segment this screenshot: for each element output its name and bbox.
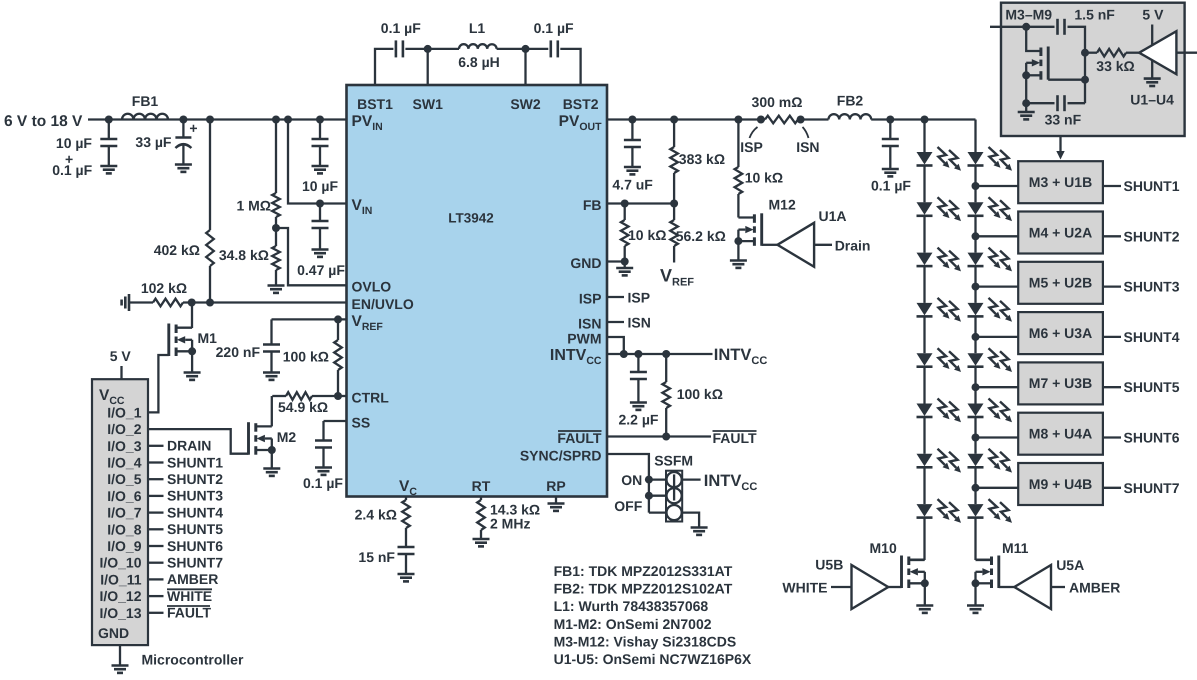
wire string2 seg3 [974,266,976,303]
svg-text:INTVCC: INTVCC [714,346,768,367]
pin label VC [399,478,417,498]
capacitor 0.1uF output [882,120,899,170]
wire VIN feed [288,120,347,204]
junction 1M tap [272,116,280,124]
wire string1 bottom [923,518,925,560]
svg-text:M10: M10 [870,540,897,556]
junction SW2 [522,45,530,53]
value label 2.4 kOhm [355,507,397,523]
label Microcontroller [142,651,244,667]
ground inverter [1144,79,1161,86]
capacitor 10uF at VIN [312,120,329,167]
pin label I/O_6 [107,488,141,504]
svg-text:AMBER: AMBER [167,571,218,587]
junction 1M/34.8k [272,224,280,232]
buffer U5A [1014,565,1051,609]
ferrite bead FB2 [829,114,872,119]
svg-text:M6 + U3A: M6 + U3A [1029,325,1092,341]
pin label SYNC/SPRD [520,448,602,464]
value label 100 kOhm [283,349,329,365]
svg-text:I/O_8: I/O_8 [107,521,141,537]
LED string1 #1 [917,147,962,171]
value label 4.7 uF [612,177,653,193]
svg-text:SHUNT5: SHUNT5 [1124,379,1180,395]
value label 2 MHz [490,516,530,532]
label + [65,151,73,167]
junction 402k/EN [206,299,214,307]
pin label I/O_11 [100,571,141,587]
junction M1 drain tap [188,299,196,307]
pin label GND (mc) [98,625,129,641]
junction jumper pin2 [645,492,653,500]
ref label U1A [819,208,847,224]
ref label M2 [277,429,297,445]
wire ISN pin stub [607,321,624,323]
wire inverter ground [1151,61,1153,79]
capacitor 220nF [263,319,280,372]
svg-text:M8 + U4A: M8 + U4A [1029,426,1092,442]
svg-text:SS: SS [352,415,371,431]
wire cap to SW1 [405,48,427,50]
junction 2.2uF [634,350,642,358]
junction tap 4 [972,333,980,341]
value label 15 nF [358,549,395,565]
wire U1A input [814,244,832,246]
net label SHUNT4 [1124,329,1180,345]
wire M12 source to ground [737,241,739,260]
svg-text:DRAIN: DRAIN [167,438,211,454]
wire FAULT [607,435,711,437]
svg-text:0.47 µF: 0.47 µF [297,262,345,278]
wire SW1 to L1 [428,48,459,50]
value label 100 kOhm [677,386,723,402]
net label DRAIN [167,438,211,454]
svg-text:I/O_5: I/O_5 [107,471,141,487]
wire ISP pin stub [607,296,624,298]
svg-text:FB2: FB2 [837,93,864,109]
pin label ISN [578,316,601,332]
pin label INTVCC [550,347,602,367]
resistor 402k [206,120,214,303]
junction ISP sense [757,116,765,124]
LED string2 #8 [968,499,1013,523]
ref label U5B [815,557,843,573]
ground (rotated) EN divider [122,294,129,311]
ref label M11 [1002,540,1029,556]
junction left LED string [921,116,929,124]
pin label I/O_1 [107,404,141,420]
net label SHUNT2 [1124,228,1180,244]
svg-text:FAULT: FAULT [557,430,602,446]
junction M1 source [188,347,196,355]
value label 54.9 kOhm [278,399,328,415]
svg-text:FB1: TDK MPZ2012S331AT: FB1: TDK MPZ2012S331AT [554,563,733,579]
svg-text:SHUNT5: SHUNT5 [167,521,223,537]
junction VIN feed [284,116,292,124]
pin label BST1 [357,96,393,112]
wire SW2 to cap [526,48,549,50]
svg-text:6 V to 18 V: 6 V to 18 V [4,113,83,130]
wire I/O_13 stub [148,612,164,614]
wire CTRL [272,395,346,397]
wire string2 bottom [974,518,976,560]
wire string1 seg5 [923,367,925,404]
value label 10 kOhm [745,170,783,186]
wire string2 seg1 [974,166,976,203]
resistor 14.3k at RT [477,497,485,540]
wire string1 seg6 [923,417,925,454]
svg-text:RP: RP [546,478,565,494]
wire M1 drain [191,303,193,329]
svg-text:5 V: 5 V [1142,7,1164,23]
svg-text:0.1 µF: 0.1 µF [52,162,92,178]
svg-text:SHUNT6: SHUNT6 [1124,430,1180,446]
pin label I/O_8 [107,521,141,537]
wire string2 seg6 [974,417,976,454]
junction 402k tap [206,116,214,124]
node label 6 V to 18 V [4,113,83,130]
LED string1 #3 [917,248,962,272]
svg-text:SHUNT3: SHUNT3 [1124,279,1180,295]
net label AMBER [1069,580,1120,596]
svg-text:SHUNT1: SHUNT1 [1124,178,1180,194]
wire M1 gate to I/O_1 [148,355,169,412]
junction 33uF [179,116,187,124]
junction 383k/56.2k [670,200,678,208]
wire M2 gate to I/O_2 [148,429,249,454]
value label 300 mOhm [752,94,803,110]
pin label BST2 [563,96,599,112]
net label ISN pin [628,315,651,331]
svg-text:34.8 kΩ: 34.8 kΩ [219,247,269,263]
svg-text:ISN: ISN [628,315,651,331]
svg-text:I/O_4: I/O_4 [107,455,141,471]
ground VC cap [398,574,415,581]
LED string2 #4 [968,298,1013,322]
value label 102 kOhm [141,280,187,296]
wire cap to BST2 riser [560,49,580,85]
wire U5B input [831,586,852,588]
svg-text:WHITE: WHITE [782,580,827,596]
svg-text:0.1 µF: 0.1 µF [381,20,421,36]
buffer U1A [777,223,814,267]
label ON [621,472,642,488]
pin label FB [583,197,602,213]
wire to pin2 [649,495,666,497]
wire string2 seg2 [974,216,976,253]
ref label FB2 [837,93,864,109]
label OFF [614,498,642,514]
wire tap 2 [976,235,1019,237]
svg-text:100 kΩ: 100 kΩ [677,386,723,402]
net label AMBER [167,571,218,587]
wire I/O_11 stub [148,578,164,580]
LED string2 #1 [968,147,1013,171]
wire I/O_12 stub [148,595,164,597]
transistor M2 [249,422,272,455]
wire SW1 riser [427,49,429,85]
capacitor 2.2uF [630,354,647,403]
resistor 383k [670,120,678,204]
IC name label LT3942 [448,211,494,226]
wire SYNC/SPRD [607,454,649,513]
wire shunt4 out [1103,336,1121,338]
net label SHUNT7 [167,555,223,571]
svg-text:I/O_1: I/O_1 [107,404,141,420]
capacitor 15nF [398,547,415,574]
net label Drain [835,238,871,254]
svg-text:ISN: ISN [796,139,819,155]
transistor M1 [169,324,192,357]
transistor M10 [902,556,925,589]
net label SHUNT3 [167,488,223,504]
svg-text:2 MHz: 2 MHz [490,516,530,532]
svg-text:SHUNT3: SHUNT3 [167,488,223,504]
net label FAULT [167,605,212,621]
ground 220nF [263,373,280,380]
LED string1 #6 [917,399,962,423]
junction gate node [1081,76,1089,84]
pin label FAULT (overlined) [557,430,602,446]
jumper header SSFM [666,471,682,522]
wire PWM to INTVCC [607,337,624,354]
LED string2 #2 [968,197,1013,221]
wire BST1 riser [375,49,393,85]
junction CTRL/100k [334,392,342,400]
value label 0.1 uF [534,20,574,36]
value label 34.8 kOhm [219,247,269,263]
net label SHUNT3 [1124,279,1180,295]
net label SHUNT4 [167,504,223,520]
junction ISN sense [797,116,805,124]
wire OVLO feed [276,228,347,285]
resistor 102k [153,299,183,307]
wire U5A input [1051,586,1065,588]
label + of 33uF [189,120,197,136]
value label 383 kOhm [679,151,725,167]
wire to M2 drain [271,396,273,426]
ref label L1 [469,20,486,36]
junction ISP branch [734,116,742,124]
junction FB/10k [621,200,629,208]
LED string1 #7 [917,449,962,473]
wire I/O_7 stub [148,511,164,513]
svg-text:I/O_9: I/O_9 [107,538,141,554]
ground 33uF [175,165,192,172]
net label SHUNT1 [167,454,223,470]
svg-text:LT3942: LT3942 [448,211,494,226]
junction tap 3 [972,283,980,291]
svg-text:M12: M12 [769,197,796,213]
pin label I/O_4 [107,455,141,471]
ground 0.47uF [312,250,329,257]
svg-text:L1: L1 [469,20,486,36]
wire SW2 riser [524,49,526,85]
net label INTVCC (jumper) [704,472,758,493]
ground 4.7uF [624,167,641,174]
wire shunt3 out [1103,285,1121,287]
wire EN/UVLO [129,301,347,303]
wire string1 seg7 [923,467,925,504]
ground microcontroller [112,666,129,673]
svg-text:6.8 µH: 6.8 µH [458,54,500,70]
ground 2.2uF [630,403,647,410]
svg-text:M9 + U4B: M9 + U4B [1029,476,1092,492]
shunt block M5 + U2B [1018,262,1103,304]
wire to pin3 [649,511,666,513]
wire to 33nF [1026,102,1054,104]
svg-text:FB2: TDK MPZ2012S102AT: FB2: TDK MPZ2012S102AT [554,581,733,597]
svg-text:I/O_10: I/O_10 [99,555,141,571]
svg-text:10 kΩ: 10 kΩ [745,170,783,186]
IC U? LT3942 body [347,85,608,497]
label SSFM [654,453,693,469]
pin label I/O_10 [99,555,141,571]
junction M2 source [268,446,276,454]
capacitor 0.47uF [312,204,329,250]
value label 0.47 uF [297,262,345,278]
junction tap 6 [972,434,980,442]
value label 220 nF [216,344,261,360]
capacitor 4.7uF [624,120,641,168]
svg-text:U1A: U1A [819,208,847,224]
wire M10 source ground [924,583,926,605]
value label 1.5 nF [1074,7,1115,23]
wire tap 5 [976,386,1019,388]
svg-text:ISN: ISN [578,316,601,332]
pin label RT [472,478,491,494]
ground M1 [184,373,201,380]
pin label ISP [579,291,602,307]
capacitor input 10uF+0.1uF [100,120,117,167]
LED string2 #6 [968,399,1013,423]
pin label VIN [352,197,373,217]
svg-text:L1: Wurth 78438357068: L1: Wurth 78438357068 [554,598,709,614]
wire I/O_4 stub [148,461,164,463]
label 5 V (mc) [110,348,132,364]
inductor L1 [459,44,497,49]
junction tap 2 [972,232,980,240]
svg-text:383 kΩ: 383 kΩ [679,151,725,167]
svg-text:ISP: ISP [740,139,763,155]
pointer ISN [803,127,809,138]
svg-text:BST1: BST1 [357,96,393,112]
pin label CTRL [352,390,390,406]
junction tap 7 [972,484,980,492]
LED string2 #5 [968,348,1013,372]
wire L1 to SW2 [497,48,526,50]
value label 0.1 uF [381,20,421,36]
capacitor 1.5nF [1058,19,1065,35]
wire shunt5 out [1103,386,1121,388]
net label VREF [660,266,694,289]
wire pin1 to INTVCC [682,478,700,480]
svg-text:0.1 µF: 0.1 µF [534,20,574,36]
svg-text:300 mΩ: 300 mΩ [752,94,803,110]
svg-text:ON: ON [621,472,642,488]
ground GND pin [616,262,633,276]
wire M11 gate to U5A [999,586,1015,588]
svg-text:ISP: ISP [579,291,602,307]
junction PWM/INTVCC [620,350,628,358]
svg-text:I/O_2: I/O_2 [107,421,141,437]
wire I/O_8 stub [148,528,164,530]
value label 33 kOhm [1096,58,1134,74]
value label 2.2 uF [619,412,659,428]
value label 10 uF [56,135,93,151]
pin label I/O_5 [107,471,141,487]
wire shunt7 out [1103,487,1121,489]
net label SHUNT1 [1124,178,1180,194]
ground input cap [100,166,117,173]
pin label I/O_2 [107,421,141,437]
wire shunt2 out [1103,235,1121,237]
inverter U1-U4 [1139,31,1176,74]
svg-text:GND: GND [98,625,129,641]
wire inset input [990,26,1055,28]
value label 0.1 uF [871,178,911,194]
svg-text:SHUNT7: SHUNT7 [1124,480,1180,496]
wire M12 gate to U1A [762,244,778,246]
buffer U5B [852,565,889,609]
svg-text:56.2 kΩ: 56.2 kΩ [676,228,726,244]
wire I/O_3 stub [148,445,164,447]
svg-text:402 kΩ: 402 kΩ [154,242,200,258]
svg-text:5 V: 5 V [110,348,132,364]
junction VREF/100k [334,315,342,323]
ground jumper [691,528,708,535]
label 5 V (inset) [1142,7,1164,23]
pin label SS [352,415,371,431]
net label SHUNT7 [1124,480,1180,496]
svg-text:1.5 nF: 1.5 nF [1074,7,1115,23]
svg-text:1 MΩ: 1 MΩ [236,198,271,214]
resistor 33k [1097,49,1126,57]
wire M11 source ground [974,583,976,605]
wire string2 seg5 [974,367,976,404]
resistor 300 mOhm sense [765,116,798,124]
capacitor C 33uF electrolytic [175,120,191,165]
wire I/O_6 stub [148,495,164,497]
pin label PVOUT [559,113,602,133]
svg-text:100 kΩ: 100 kΩ [283,349,329,365]
svg-text:SHUNT7: SHUNT7 [167,555,223,571]
svg-text:RT: RT [472,478,491,494]
wire SS [324,420,347,422]
pin label PVIN [352,113,383,133]
svg-text:SHUNT1: SHUNT1 [167,454,223,470]
svg-text:M11: M11 [1002,540,1029,556]
svg-text:I/O_3: I/O_3 [107,438,141,454]
shunt block M9 + U4B [1018,463,1103,505]
svg-text:M5 + U2B: M5 + U2B [1029,275,1092,291]
svg-text:FB: FB [583,197,602,213]
pin label I/O_12 [99,588,141,604]
pointer ISP [750,127,758,138]
ground output cap [882,169,899,176]
svg-text:+: + [189,120,197,136]
junction tap 1 [972,182,980,190]
svg-text:SHUNT6: SHUNT6 [167,538,223,554]
ferrite bead FB1 [122,114,168,120]
value label 56.2 kOhm [676,228,726,244]
junction FAULT/100k [662,433,670,441]
resistor 10k ISP [735,120,743,218]
inset box [1001,3,1185,136]
wire shunt6 out [1103,436,1121,438]
label M3-M9 [1005,7,1052,23]
wire I/O_10 stub [148,562,164,564]
